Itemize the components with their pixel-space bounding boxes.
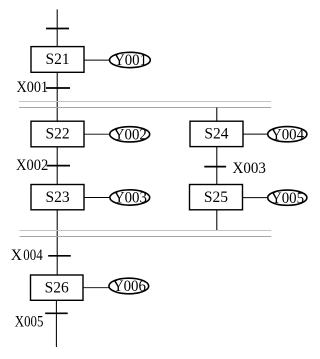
- svg-text:X001: X001: [17, 79, 49, 96]
- wire S23 to Y003: [84, 197, 110, 199]
- svg-text:Y001: Y001: [114, 52, 147, 69]
- wire S23 down through convergence and X004 to S26: [56, 210, 58, 275]
- wire S22 down through X002 to S23: [56, 147, 58, 185]
- transition X003: [204, 160, 266, 177]
- svg-text:S24: S24: [204, 126, 228, 143]
- wire S26 to Y006: [83, 287, 109, 289]
- wire S21 to Y001: [84, 59, 110, 61]
- coil Y002: [110, 127, 150, 144]
- step S24: [190, 121, 243, 146]
- wire S25 down to convergence: [216, 210, 218, 230]
- step S23: [31, 185, 84, 210]
- coil Y003: [110, 190, 150, 207]
- svg-text:004: 004: [23, 247, 43, 264]
- transition X005: [15, 313, 68, 330]
- svg-text:Y002: Y002: [114, 127, 147, 144]
- coil Y006: [109, 278, 149, 295]
- step S21: [31, 47, 84, 73]
- svg-text:Y004: Y004: [271, 126, 304, 143]
- wire top entry into S21: [56, 9, 58, 46]
- svg-text:X005: X005: [15, 314, 44, 331]
- wire S21 down through X001 to divergence and S22: [56, 72, 58, 121]
- wire S24 down through X003 to S25: [216, 147, 218, 185]
- wire S22 to Y002: [84, 133, 110, 135]
- step S26: [31, 275, 84, 300]
- coil Y005: [268, 190, 307, 207]
- coil Y004: [268, 126, 307, 143]
- wire S25 to Y005: [243, 197, 268, 199]
- svg-text:S26: S26: [45, 279, 69, 296]
- svg-text:Y006: Y006: [113, 278, 146, 295]
- step S22: [31, 121, 84, 147]
- svg-text:X: X: [11, 247, 22, 264]
- wire divergence to S24: [216, 108, 218, 122]
- transition X001: [17, 79, 71, 96]
- svg-text:S25: S25: [204, 189, 228, 206]
- parallel divergence double bar: [19, 102, 271, 108]
- svg-text:S23: S23: [46, 189, 70, 206]
- step S25: [190, 185, 243, 210]
- transition tick initial (top): [46, 28, 69, 30]
- transition X002: [16, 157, 70, 174]
- svg-text:X002: X002: [16, 157, 48, 174]
- svg-text:Y005: Y005: [271, 190, 304, 207]
- transition X004: [11, 247, 71, 264]
- svg-text:S21: S21: [46, 51, 70, 68]
- svg-text:S22: S22: [46, 126, 70, 143]
- svg-text:X003: X003: [233, 160, 267, 177]
- wire S24 to Y004: [243, 133, 268, 135]
- svg-text:Y003: Y003: [114, 190, 147, 207]
- parallel convergence double bar: [20, 231, 272, 237]
- coil Y001: [109, 52, 150, 69]
- wire S26 down through X005 to exit: [55, 300, 57, 347]
